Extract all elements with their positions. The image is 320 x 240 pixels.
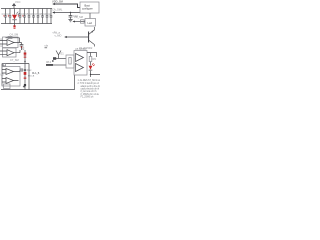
svg-text:configure: configure [82, 7, 93, 11]
svg-text:C4: C4 [21, 12, 25, 16]
svg-text:ula: ula [45, 44, 49, 48]
svg-text:VDD_SM: VDD_SM [52, 0, 63, 4]
svg-text:C7: C7 [34, 12, 38, 16]
svg-text:C2: C2 [6, 12, 10, 16]
svg-text:E1: E1 [61, 52, 65, 56]
svg-text:U3: U3 [0, 72, 4, 76]
svg-text:C7_SM: C7_SM [10, 58, 19, 62]
svg-text:VCC: VCC [15, 0, 21, 4]
svg-text:if_not note of t th: if_not note of t th [81, 90, 98, 93]
svg-text:Led: Led [88, 21, 93, 25]
svg-text:C5: C5 [25, 12, 29, 16]
svg-text:CA_SML: CA_SML [52, 8, 63, 12]
svg-text:C3: C3 [16, 12, 20, 16]
svg-text:CA: CA [47, 12, 51, 16]
svg-text:C4_SM: C4_SM [10, 33, 19, 37]
svg-text:Dsc: Dsc [27, 68, 32, 72]
svg-text:2. TVS 3.3and3 pcs of: 2. TVS 3.3and3 pcs of [78, 83, 100, 85]
svg-text:capty electrok de th: capty electrok de th [81, 88, 100, 91]
svg-text:v_MO: v_MO [55, 34, 62, 38]
svg-text:VD_SM: VD_SM [74, 15, 83, 19]
svg-text:D2: D2 [21, 46, 25, 50]
svg-text:R9: R9 [93, 57, 97, 61]
svg-text:FL_2SMS ch: FL_2SMS ch [81, 96, 94, 98]
svg-text:08.2: 08.2 [46, 60, 52, 64]
svg-text:C8: C8 [39, 12, 43, 16]
svg-text:RLA_B: RLA_B [32, 72, 40, 75]
svg-text:C6: C6 [30, 12, 34, 16]
svg-text:C1: C1 [2, 12, 6, 16]
svg-text:1. AL RES ST_SM in ar: 1. AL RES ST_SM in ar [78, 79, 101, 82]
svg-text:adapt such to the dm: adapt such to the dm [81, 85, 101, 88]
